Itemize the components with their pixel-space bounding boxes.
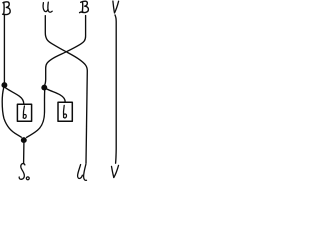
- label b (in box b2): [63, 105, 66, 118]
- wire dot3 to output S: [23, 143, 25, 163]
- label v (output): [112, 165, 119, 177]
- node dot2 (copy): [41, 85, 47, 91]
- node dot1 (copy): [1, 82, 7, 88]
- wire V (right vertical, top to output v): [115, 15, 116, 163]
- label U (top, input wire 2): [43, 2, 52, 12]
- wire dot1 to dot3 (left cup): [2, 88, 21, 137]
- label B (top, input wire 3): [80, 1, 89, 12]
- label u (output): [78, 164, 87, 180]
- label V (top, input wire 4): [113, 1, 119, 13]
- box b2: [58, 102, 72, 121]
- label S-circ (output S): [19, 164, 29, 180]
- wire dot1 to box b1: [5, 88, 24, 104]
- box b1: [17, 104, 31, 121]
- wire dot2 to box b2: [47, 89, 65, 102]
- wire B1 (left vertical into dot1): [3, 15, 5, 82]
- wire B2 (third input, crosses left, down into dot2): [45, 16, 86, 86]
- wire U (second input, crosses right, down to output u): [45, 16, 87, 164]
- label b (in box b1): [23, 106, 26, 118]
- label B (top left, input wire 1): [3, 2, 11, 15]
- node dot3 (merge): [21, 137, 27, 143]
- wire dot2 to dot3 (right cup): [27, 91, 45, 138]
